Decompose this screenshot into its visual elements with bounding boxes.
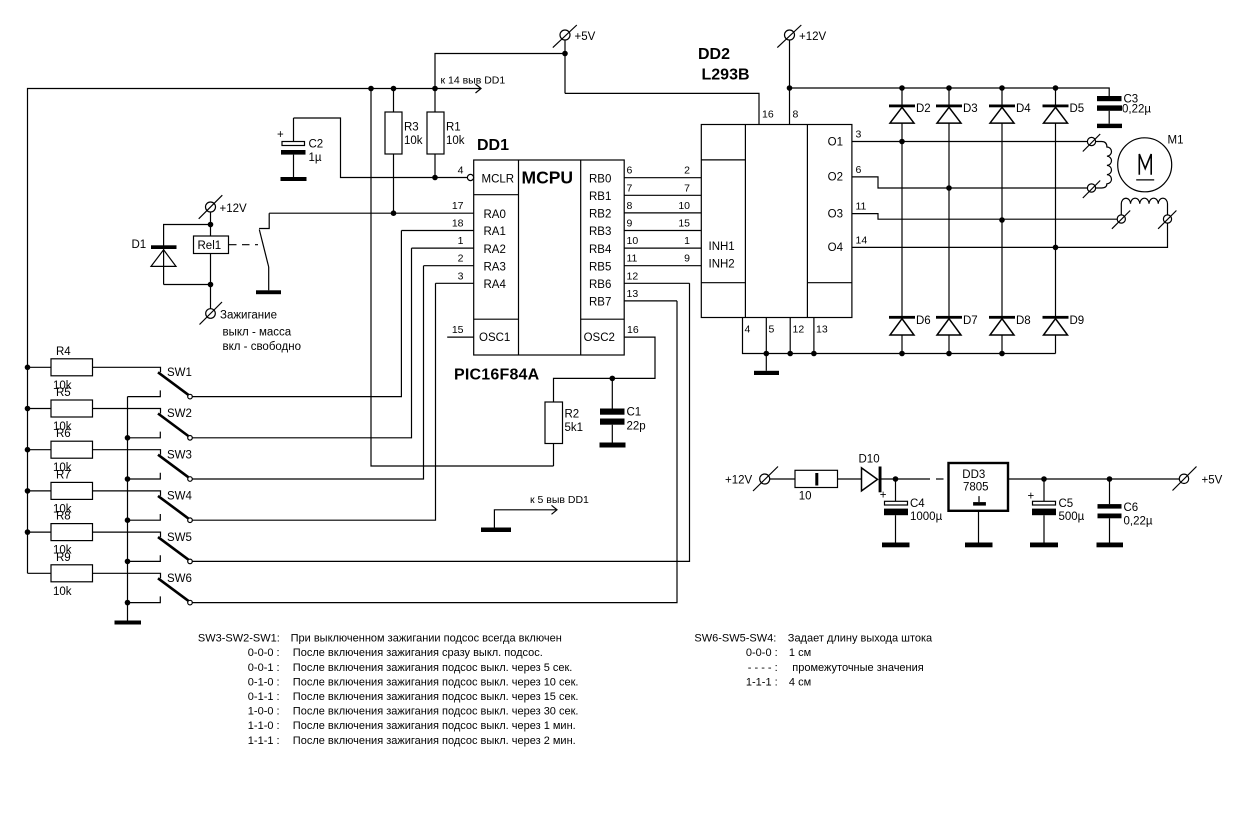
svg-text:17: 17 bbox=[452, 200, 464, 212]
node к 5 выв DD1 ground bbox=[481, 494, 589, 532]
svg-text:- - - - :: - - - - : bbox=[748, 662, 778, 674]
wire RB0 to DD2 pin 2 bbox=[624, 177, 701, 179]
wire SW6 to RB7 bbox=[192, 301, 677, 603]
junction dots switch bus bbox=[125, 435, 131, 441]
junction dots left bus bbox=[25, 365, 31, 371]
svg-text:7805: 7805 bbox=[963, 482, 989, 494]
svg-text:RA3: RA3 bbox=[484, 261, 506, 273]
svg-text:4: 4 bbox=[458, 165, 464, 177]
svg-text:DD1: DD1 bbox=[477, 137, 509, 154]
wire diode column 2 bbox=[948, 88, 950, 354]
wire diode column 4 bbox=[1055, 88, 1057, 354]
svg-text:10: 10 bbox=[799, 491, 812, 503]
junction dot MCLR net bbox=[432, 175, 438, 181]
svg-text:SW1: SW1 bbox=[167, 367, 192, 379]
junction dots diode columns bottom bbox=[899, 351, 905, 357]
wire C2 to MCLR bbox=[294, 118, 468, 178]
svg-text:L293B: L293B bbox=[702, 67, 750, 84]
svg-text:C2: C2 bbox=[309, 139, 324, 151]
svg-text:R4: R4 bbox=[56, 346, 71, 358]
svg-text:16: 16 bbox=[627, 324, 639, 336]
svg-text:к 14 выв DD1: к 14 выв DD1 bbox=[441, 75, 506, 87]
ground relay contact bbox=[256, 290, 281, 294]
svg-text:+12V: +12V bbox=[799, 31, 827, 43]
svg-text:0-0-0 :: 0-0-0 : bbox=[746, 647, 778, 659]
svg-text:O4: O4 bbox=[828, 242, 844, 254]
wire O4 to winding bbox=[852, 223, 1168, 247]
svg-text:При выключенном зажигании подс: При выключенном зажигании подсос всегда … bbox=[291, 633, 562, 645]
svg-text:10k: 10k bbox=[53, 586, 72, 598]
wire RA2 stub bbox=[412, 247, 474, 249]
svg-text:+12V: +12V bbox=[725, 474, 753, 486]
terminal Зажигание bbox=[200, 302, 277, 325]
node к 14 выв DD1 bbox=[435, 75, 505, 94]
wire +12V to relay bbox=[210, 212, 212, 237]
svg-text:После включения зажигания подс: После включения зажигания подсос выкл. ч… bbox=[293, 720, 576, 732]
wire RB4 to DD2 pin 1 bbox=[624, 247, 701, 249]
wire RB7 stub bbox=[624, 300, 677, 302]
winding L1 terminal bottom bbox=[1083, 181, 1100, 199]
svg-text:16: 16 bbox=[762, 109, 774, 121]
svg-text:RB7: RB7 bbox=[589, 297, 611, 309]
resistor R4 bbox=[28, 346, 93, 392]
diode D9 bbox=[1043, 315, 1085, 335]
capacitor C1 bbox=[600, 378, 646, 442]
svg-text:D10: D10 bbox=[859, 454, 880, 466]
svg-text:6: 6 bbox=[627, 165, 633, 177]
wire RB3 to DD2 pin 15 bbox=[624, 230, 701, 232]
junction dots +5V rail bbox=[368, 86, 374, 92]
diode D10 bbox=[859, 454, 882, 493]
svg-text:5: 5 bbox=[769, 324, 775, 336]
inductor L1 winding bbox=[1096, 142, 1112, 189]
svg-text:O1: O1 bbox=[828, 136, 843, 148]
motor M1 bbox=[1118, 135, 1184, 192]
svg-text:6: 6 bbox=[856, 164, 862, 176]
svg-text:После включения зажигания подс: После включения зажигания подсос выкл. ч… bbox=[293, 691, 579, 703]
svg-text:Задает длину выхода штока: Задает длину выхода штока bbox=[788, 633, 933, 645]
switch SW1 bbox=[93, 367, 193, 399]
junction dots diode columns to motor nets bbox=[899, 139, 905, 145]
wire diode column 3 bbox=[1001, 88, 1003, 354]
svg-text:Зажигание: Зажигание bbox=[220, 310, 277, 322]
svg-text:1000µ: 1000µ bbox=[910, 511, 943, 523]
winding L2 terminal left bbox=[1112, 211, 1130, 229]
svg-text:D1: D1 bbox=[132, 239, 147, 251]
wire dash before DD3 bbox=[936, 478, 944, 480]
wire RA4 stub bbox=[436, 282, 474, 284]
wire OSC1 stub bbox=[447, 336, 474, 338]
ground switch bus bbox=[115, 621, 142, 625]
svg-text:4 см: 4 см bbox=[789, 676, 811, 688]
svg-text:C1: C1 bbox=[627, 407, 642, 419]
svg-text:11: 11 bbox=[856, 201, 867, 213]
svg-text:RB1: RB1 bbox=[589, 191, 611, 203]
junction dots supply bbox=[893, 476, 899, 482]
wire D10 to DD3 bbox=[882, 478, 931, 480]
svg-text:C6: C6 bbox=[1124, 502, 1139, 514]
wire +5V rail to R2 bbox=[371, 89, 554, 467]
ground under C3 bbox=[1097, 124, 1122, 128]
svg-text:R1: R1 bbox=[446, 122, 461, 134]
table SW6-SW5-SW4 bbox=[694, 633, 933, 689]
svg-text:RB3: RB3 bbox=[589, 226, 611, 238]
ground DD2 bbox=[754, 354, 779, 376]
IC DD3 7805 bbox=[949, 463, 1009, 511]
wire +12V to fuse bbox=[770, 478, 795, 480]
svg-text:OSC2: OSC2 bbox=[584, 332, 615, 344]
svg-text:RA1: RA1 bbox=[484, 226, 506, 238]
svg-text:R9: R9 bbox=[56, 552, 71, 564]
svg-text:10: 10 bbox=[678, 200, 690, 212]
svg-text:MCLR: MCLR bbox=[482, 173, 515, 185]
svg-text:1-0-0 :: 1-0-0 : bbox=[248, 706, 280, 718]
svg-text:1-1-1 :: 1-1-1 : bbox=[248, 735, 280, 747]
junction dots DD2 bottom bus bbox=[764, 351, 770, 357]
svg-text:7: 7 bbox=[684, 182, 690, 194]
diode D2 bbox=[889, 103, 931, 123]
svg-text:22p: 22p bbox=[627, 421, 646, 433]
svg-text:SW3-SW2-SW1:: SW3-SW2-SW1: bbox=[198, 633, 280, 645]
svg-text:D3: D3 bbox=[963, 103, 978, 115]
wire DD2 pin 12 bbox=[789, 318, 791, 354]
wire O2 to winding bbox=[852, 177, 1087, 188]
wire D1 bottom to relay bbox=[164, 284, 211, 286]
diode D3 bbox=[936, 103, 978, 123]
wire +12V to DD2 pin 8 bbox=[789, 40, 791, 125]
svg-text:9: 9 bbox=[684, 253, 690, 265]
svg-text:1: 1 bbox=[684, 235, 690, 247]
capacitor C4 bbox=[880, 479, 943, 543]
svg-text:SW4: SW4 bbox=[167, 491, 193, 503]
ground under C4 bbox=[882, 543, 910, 548]
junction dot +5V branch bbox=[562, 51, 568, 57]
resistor R7 bbox=[28, 469, 93, 515]
svg-text:18: 18 bbox=[452, 218, 464, 230]
wire DD2 pin 4 bbox=[743, 318, 1056, 354]
svg-text:C5: C5 bbox=[1059, 498, 1074, 510]
wire SW4 to RA4 bbox=[192, 283, 435, 520]
svg-text:+: + bbox=[880, 490, 887, 502]
svg-text:промежуточные значения: промежуточные значения bbox=[792, 662, 923, 674]
ground under C1 bbox=[600, 443, 626, 448]
inductor L2 winding bbox=[1121, 198, 1167, 215]
svg-text:RB2: RB2 bbox=[589, 209, 611, 221]
svg-text:M1: M1 bbox=[1168, 135, 1184, 147]
wire fuse to D10 bbox=[838, 478, 862, 480]
svg-text:2: 2 bbox=[684, 165, 690, 177]
svg-text:R7: R7 bbox=[56, 469, 71, 481]
junction dots diode columns top bbox=[899, 85, 905, 91]
svg-text:3: 3 bbox=[458, 270, 464, 282]
svg-text:INH2: INH2 bbox=[709, 259, 735, 271]
svg-text:0,22µ: 0,22µ bbox=[1124, 516, 1153, 528]
svg-text:O2: O2 bbox=[828, 172, 843, 184]
junction dot +12V rail bbox=[787, 85, 793, 91]
wire SW5 to RB6 bbox=[192, 283, 689, 561]
IC DD1 MCPU PIC16F84A bbox=[454, 137, 624, 384]
capacitor C2 bbox=[277, 118, 323, 177]
svg-text:4: 4 bbox=[745, 324, 751, 336]
svg-text:12: 12 bbox=[627, 270, 639, 282]
wire O1 to winding bbox=[852, 141, 1087, 143]
svg-text:3: 3 bbox=[856, 129, 862, 141]
svg-text:D2: D2 bbox=[916, 103, 931, 115]
svg-text:SW3: SW3 bbox=[167, 449, 192, 461]
winding L2 terminal right bbox=[1158, 211, 1176, 229]
svg-text:7: 7 bbox=[627, 182, 633, 194]
svg-text:RB0: RB0 bbox=[589, 173, 611, 185]
capacitor C5 bbox=[1028, 479, 1085, 543]
winding L1 terminal top bbox=[1083, 134, 1100, 152]
svg-text:13: 13 bbox=[816, 324, 828, 336]
relay Rel1 bbox=[194, 236, 229, 309]
svg-text:R6: R6 bbox=[56, 428, 71, 440]
wire RA1 stub bbox=[401, 230, 473, 232]
ground DD3 bbox=[965, 511, 993, 547]
wire diode column 1 bbox=[901, 88, 903, 354]
svg-text:0-0-1 :: 0-0-1 : bbox=[248, 662, 280, 674]
svg-text:1: 1 bbox=[458, 235, 464, 247]
svg-text:D7: D7 bbox=[963, 315, 978, 327]
svg-text:1-1-0 :: 1-1-0 : bbox=[248, 720, 280, 732]
svg-text:RB5: RB5 bbox=[589, 261, 611, 273]
wire SW2 to RA2 bbox=[192, 248, 411, 438]
svg-text:После включения зажигания сраз: После включения зажигания сразу выкл. по… bbox=[293, 647, 543, 659]
relay dashed link bbox=[229, 244, 258, 246]
wire RB5 to DD2 pin 9 bbox=[624, 265, 701, 267]
svg-text:SW6: SW6 bbox=[167, 573, 192, 585]
svg-text:0,22µ: 0,22µ bbox=[1122, 104, 1151, 116]
wire OSC2 to RC net bbox=[554, 337, 656, 402]
terminal +12V supply bbox=[725, 467, 778, 492]
ground under C6 bbox=[1097, 543, 1124, 548]
svg-text:R5: R5 bbox=[56, 387, 71, 399]
svg-text:выкл - масса: выкл - масса bbox=[223, 327, 292, 339]
diode D6 bbox=[889, 315, 931, 335]
wire +5V to R1 top bbox=[435, 54, 565, 89]
resistor R1 bbox=[427, 89, 465, 178]
svg-text:вкл - свободно: вкл - свободно bbox=[223, 341, 302, 353]
diode D8 bbox=[989, 315, 1031, 335]
svg-text:10k: 10k bbox=[404, 135, 423, 147]
svg-text:RA0: RA0 bbox=[484, 209, 506, 221]
wire RB6 stub bbox=[624, 282, 689, 284]
svg-text:SW2: SW2 bbox=[167, 408, 192, 420]
svg-text:INH1: INH1 bbox=[709, 241, 735, 253]
terminal +5V supply bbox=[1173, 467, 1223, 491]
svg-text:1-1-1 :: 1-1-1 : bbox=[746, 676, 778, 688]
pin MCLR circle bbox=[467, 174, 473, 180]
wire DD3 output bbox=[1008, 478, 1179, 480]
svg-text:D9: D9 bbox=[1070, 315, 1085, 327]
svg-text:D8: D8 bbox=[1016, 315, 1031, 327]
wire RB1 to DD2 pin 7 bbox=[624, 194, 701, 196]
resistor R2 bbox=[545, 402, 583, 466]
svg-text:0-1-1 :: 0-1-1 : bbox=[248, 691, 280, 703]
relay contact bbox=[259, 213, 269, 290]
ground under C2 bbox=[281, 177, 307, 181]
svg-text:0-1-0 :: 0-1-0 : bbox=[248, 676, 280, 688]
resistor R9 bbox=[28, 552, 93, 598]
svg-text:После включения зажигания подс: После включения зажигания подсос выкл. ч… bbox=[293, 706, 579, 718]
svg-text:RA2: RA2 bbox=[484, 244, 506, 256]
svg-text:OSC1: OSC1 bbox=[479, 332, 510, 344]
wire RB2 to DD2 pin 10 bbox=[624, 212, 701, 214]
wire +5V to DD2 pin 16 bbox=[565, 93, 759, 124]
svg-text:10k: 10k bbox=[446, 135, 465, 147]
switch SW2 bbox=[93, 408, 193, 440]
svg-text:PIC16F84A: PIC16F84A bbox=[454, 367, 540, 384]
wire DD2 pin 13 bbox=[813, 318, 815, 354]
svg-text:13: 13 bbox=[627, 288, 639, 300]
svg-text:5k1: 5k1 bbox=[565, 422, 584, 434]
switch SW4 bbox=[93, 491, 193, 523]
svg-text:D5: D5 bbox=[1070, 103, 1085, 115]
svg-text:R3: R3 bbox=[404, 122, 419, 134]
svg-text:15: 15 bbox=[678, 218, 690, 230]
svg-text:+5V: +5V bbox=[575, 31, 596, 43]
wire +12V rail to C3 bbox=[790, 88, 1110, 96]
svg-text:14: 14 bbox=[856, 234, 868, 246]
svg-text:1µ: 1µ bbox=[309, 152, 322, 164]
svg-text:После включения зажигания подс: После включения зажигания подсос выкл. ч… bbox=[293, 676, 579, 688]
terminal +5V bbox=[553, 25, 596, 48]
svg-text:12: 12 bbox=[793, 324, 805, 336]
wire SW3 to RA3 bbox=[192, 266, 423, 479]
resistor R5 bbox=[28, 387, 93, 433]
capacitor C3 bbox=[1097, 93, 1151, 123]
svg-text:O3: O3 bbox=[828, 208, 843, 220]
svg-text:+: + bbox=[277, 129, 284, 141]
terminal +12V top bbox=[777, 25, 826, 48]
svg-text:9: 9 bbox=[627, 218, 633, 230]
svg-text:8: 8 bbox=[793, 109, 799, 121]
svg-text:15: 15 bbox=[452, 324, 464, 336]
wire relay contact to RA0 bbox=[269, 212, 474, 214]
svg-text:После включения зажигания подс: После включения зажигания подсос выкл. ч… bbox=[293, 662, 573, 674]
svg-text:C4: C4 bbox=[910, 498, 925, 510]
svg-text:D4: D4 bbox=[1016, 103, 1031, 115]
diode D4 bbox=[989, 103, 1031, 123]
svg-text:DD2: DD2 bbox=[698, 46, 730, 63]
svg-text:SW6-SW5-SW4:: SW6-SW5-SW4: bbox=[694, 633, 776, 645]
svg-text:к 5 выв DD1: к 5 выв DD1 bbox=[530, 494, 589, 506]
resistor R8 bbox=[28, 511, 93, 557]
wire O3 to winding bbox=[852, 214, 1117, 220]
capacitor C6 bbox=[1098, 479, 1153, 543]
svg-text:Rel1: Rel1 bbox=[198, 240, 222, 252]
switch SW3 bbox=[93, 449, 193, 481]
resistor R6 bbox=[28, 428, 93, 474]
svg-text:RB4: RB4 bbox=[589, 244, 612, 256]
svg-text:+: + bbox=[1028, 491, 1035, 503]
diode D5 bbox=[1043, 103, 1085, 123]
svg-text:R2: R2 bbox=[565, 409, 580, 421]
junction dots relay bbox=[208, 222, 214, 228]
wire relay to D1 top bbox=[164, 225, 211, 250]
junction dot RA0 net bbox=[391, 210, 397, 216]
svg-text:8: 8 bbox=[627, 200, 633, 212]
svg-text:DD3: DD3 bbox=[962, 469, 985, 481]
svg-text:0-0-0 :: 0-0-0 : bbox=[248, 647, 280, 659]
svg-text:R8: R8 bbox=[56, 511, 71, 523]
junction dot C1 bbox=[610, 376, 616, 382]
fuse FU1 10 bbox=[795, 470, 838, 502]
terminal +12V left bbox=[199, 195, 247, 219]
svg-text:500µ: 500µ bbox=[1059, 511, 1085, 523]
wire DD2 pin 5 bbox=[765, 318, 767, 354]
svg-text:D6: D6 bbox=[916, 315, 931, 327]
svg-text:RA4: RA4 bbox=[484, 279, 507, 291]
svg-text:1 см: 1 см bbox=[789, 647, 811, 659]
svg-text:+5V: +5V bbox=[1202, 474, 1223, 486]
svg-text:После включения зажигания подс: После включения зажигания подсос выкл. ч… bbox=[293, 735, 576, 747]
switch SW5 bbox=[93, 532, 193, 564]
wire switch common bus bbox=[127, 397, 129, 621]
svg-text:RB6: RB6 bbox=[589, 279, 611, 291]
wire RA3 stub bbox=[424, 265, 474, 267]
ground under C5 bbox=[1030, 543, 1058, 548]
table SW3-SW2-SW1 bbox=[198, 633, 579, 747]
svg-text:10: 10 bbox=[627, 235, 639, 247]
svg-text:+12V: +12V bbox=[220, 203, 248, 215]
diode D7 bbox=[936, 315, 978, 335]
wire +5V left rail bbox=[28, 89, 436, 574]
diode D1 bbox=[132, 239, 177, 285]
wire SW1 to RA1 bbox=[192, 231, 401, 397]
IC DD2 L293B bbox=[698, 46, 852, 318]
switch SW6 bbox=[93, 573, 193, 605]
wire +5V stem bbox=[564, 40, 566, 94]
svg-text:MCPU: MCPU bbox=[522, 168, 574, 188]
svg-text:2: 2 bbox=[458, 253, 464, 265]
svg-text:SW5: SW5 bbox=[167, 532, 192, 544]
svg-text:11: 11 bbox=[627, 253, 638, 265]
resistor R3 bbox=[385, 89, 423, 214]
